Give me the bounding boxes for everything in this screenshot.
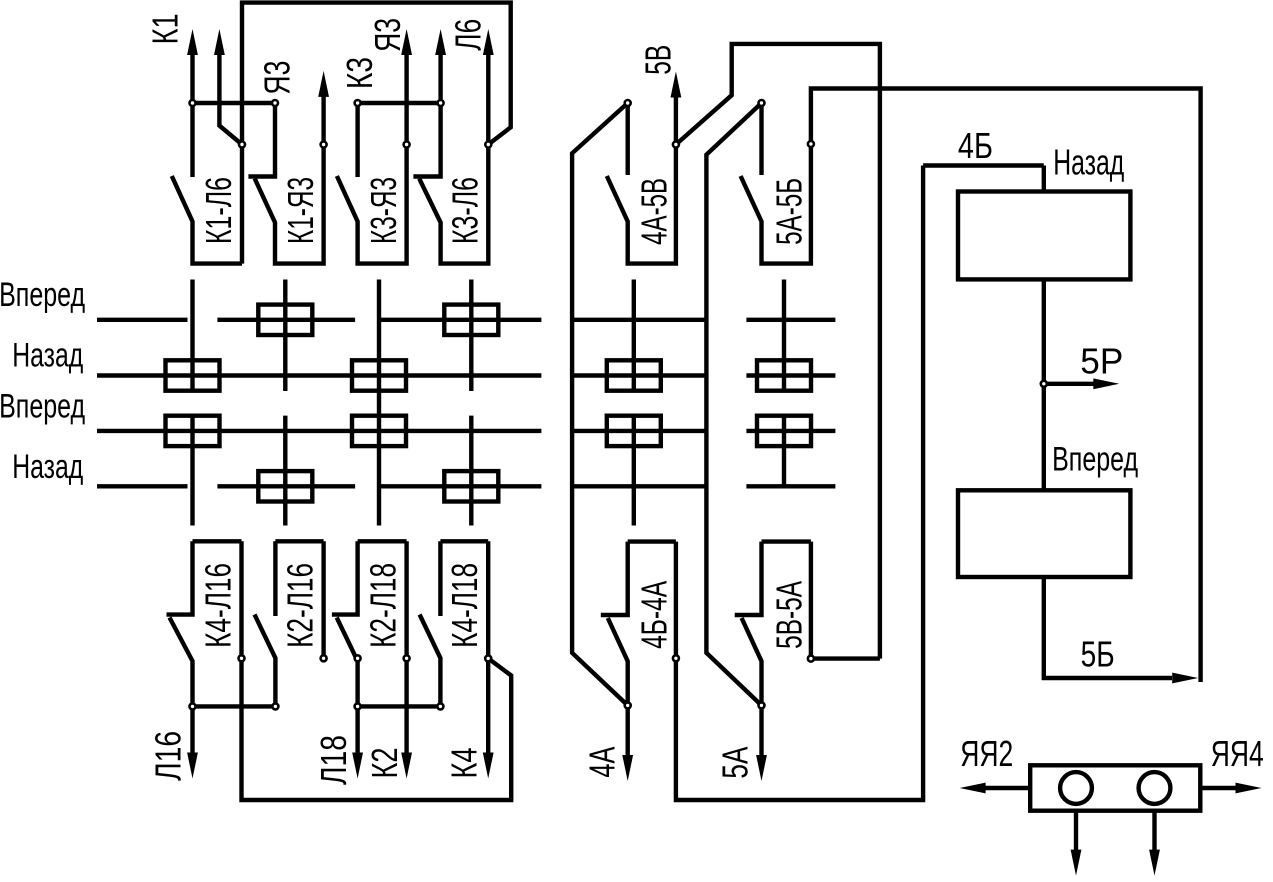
svg-text:Назад: Назад (1053, 142, 1124, 183)
svg-text:Назад: Назад (12, 336, 83, 374)
svg-text:К4-Л18: К4-Л18 (444, 563, 485, 648)
svg-text:ЯЯ2: ЯЯ2 (960, 733, 1013, 774)
svg-text:5Р: 5Р (1080, 341, 1123, 382)
svg-text:Л6: Л6 (448, 19, 489, 51)
svg-text:5В: 5В (637, 45, 678, 75)
svg-text:4Б-4А: 4Б-4А (634, 581, 675, 649)
svg-text:К2: К2 (364, 748, 405, 779)
svg-text:Вперед: Вперед (1052, 440, 1138, 478)
svg-text:5В-5А: 5В-5А (769, 581, 810, 649)
svg-text:К3-Л6: К3-Л6 (445, 177, 486, 244)
svg-text:К3-Я3: К3-Я3 (363, 177, 404, 244)
svg-text:Я3: Я3 (256, 61, 297, 95)
svg-text:Л16: Л16 (147, 731, 188, 781)
svg-text:К2-Л18: К2-Л18 (362, 563, 403, 648)
svg-text:К2-Л16: К2-Л16 (279, 563, 320, 648)
svg-text:4Б: 4Б (958, 125, 993, 166)
svg-text:5А-5Б: 5А-5Б (769, 178, 810, 245)
svg-text:К1: К1 (145, 13, 186, 44)
svg-text:К1-Я3: К1-Я3 (280, 177, 321, 244)
svg-text:К1-Л6: К1-Л6 (198, 177, 239, 244)
svg-text:К3: К3 (339, 57, 380, 89)
svg-text:4А-5В: 4А-5В (634, 178, 675, 245)
svg-text:Вперед: Вперед (0, 276, 85, 314)
svg-text:4А: 4А (582, 747, 623, 778)
svg-text:Назад: Назад (12, 448, 83, 486)
svg-text:5Б: 5Б (1081, 634, 1115, 675)
svg-text:Я3: Я3 (367, 18, 408, 52)
svg-text:ЯЯ4: ЯЯ4 (1211, 733, 1264, 774)
svg-text:К4: К4 (444, 748, 485, 779)
svg-text:Л18: Л18 (313, 735, 354, 785)
svg-text:К4-Л16: К4-Л16 (197, 563, 238, 648)
svg-text:Вперед: Вперед (0, 388, 85, 426)
svg-text:5А: 5А (715, 747, 756, 779)
